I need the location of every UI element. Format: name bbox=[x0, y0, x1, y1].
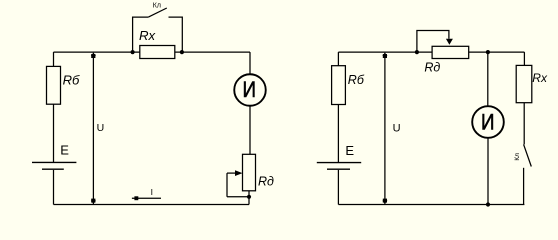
svg-text:И: И bbox=[242, 77, 256, 102]
svg-text:I: I bbox=[151, 187, 153, 197]
svg-text:U: U bbox=[393, 122, 401, 134]
svg-text:Rд: Rд bbox=[424, 61, 440, 75]
svg-text:E: E bbox=[60, 143, 69, 158]
svg-text:E: E bbox=[345, 143, 354, 158]
svg-text:Rx: Rx bbox=[139, 28, 156, 43]
svg-text:Кл: Кл bbox=[153, 3, 161, 10]
svg-text:Кл: Кл bbox=[514, 153, 521, 161]
svg-text:U: U bbox=[97, 122, 105, 134]
svg-text:Rб: Rб bbox=[63, 72, 80, 87]
svg-text:Rx: Rx bbox=[532, 71, 548, 85]
svg-text:И: И bbox=[481, 109, 495, 134]
svg-text:Rб: Rб bbox=[348, 73, 365, 87]
svg-text:Rд: Rд bbox=[258, 175, 274, 189]
